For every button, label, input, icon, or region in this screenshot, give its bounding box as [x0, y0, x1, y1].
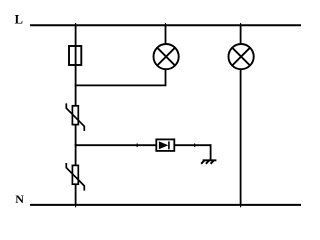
wire: horizontal from lamp HL1 to left branch	[75, 84, 167, 86]
junction tick on L bus at left branch	[75, 23, 77, 26]
wire: top bus L	[30, 24, 301, 26]
wire: RV2 bottom to N bus	[75, 184, 77, 205]
wire: down to ground	[210, 144, 212, 160]
diode V cathode bar	[168, 141, 170, 149]
wire: lamp HL2 bottom lead to N bus	[240, 69, 242, 205]
junction tick on N bus at left branch	[75, 205, 77, 208]
lamp HL1 circle	[154, 44, 179, 69]
wire: diode box to ground corner	[174, 144, 211, 146]
wire: lamp HL2 top lead	[240, 25, 242, 44]
varistor RV2 diagonal with hooks	[66, 163, 84, 191]
diode V triangle	[159, 141, 168, 149]
wire: middle branch from left branch to diode box	[75, 144, 157, 146]
ground: bar	[203, 159, 217, 161]
ground hatch 1	[201, 160, 204, 164]
fuse FU (rectangle with wire through)	[69, 46, 81, 65]
svg-text:L: L	[15, 13, 23, 27]
varistor RV1 body	[72, 106, 78, 125]
lamp HL2 circle	[229, 44, 254, 69]
ground hatch 2	[206, 160, 209, 164]
lamp HL1 cross	[157, 48, 175, 66]
lamp HL2 cross	[232, 48, 250, 66]
junction tick on L bus at lamp1 branch	[165, 23, 167, 26]
svg-text:N: N	[15, 192, 24, 206]
pin tick right of diode box	[194, 143, 196, 147]
wire: between RV1 and RV2	[75, 124, 77, 165]
varistor RV1 diagonal with hooks	[66, 103, 84, 131]
ground hatch 3	[211, 160, 214, 164]
wire: left branch from L bus through fuse to varistor RV1 top	[75, 25, 77, 106]
pin tick left of diode box	[136, 143, 138, 147]
varistor RV2 body	[72, 165, 78, 184]
wire: lamp HL1 top lead	[165, 25, 167, 44]
wire: lamp HL1 bottom lead	[165, 69, 167, 85]
junction tick on N bus at lamp2 branch	[240, 205, 242, 208]
wire: bottom bus N	[30, 204, 301, 206]
diode box V (rectangle)	[156, 139, 174, 151]
junction tick on L bus at lamp2 branch	[240, 23, 242, 26]
